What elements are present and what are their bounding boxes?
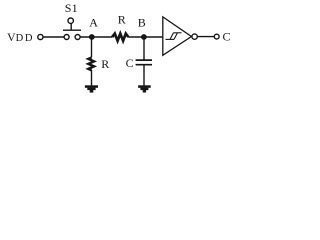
svg-text:S1: S1 bbox=[65, 1, 78, 15]
svg-text:B: B bbox=[138, 16, 146, 30]
svg-text:C: C bbox=[223, 29, 231, 43]
svg-text:R: R bbox=[118, 12, 126, 26]
svg-text:R: R bbox=[101, 57, 109, 71]
svg-text:A: A bbox=[89, 16, 98, 30]
svg-text:C: C bbox=[126, 56, 134, 70]
svg-text:VDD: VDD bbox=[7, 30, 34, 44]
